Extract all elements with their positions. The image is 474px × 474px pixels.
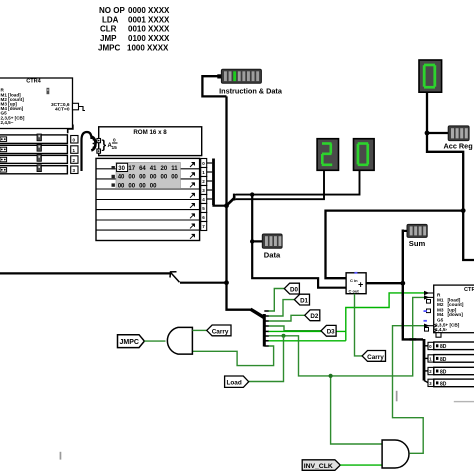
node nibble splitter xyxy=(227,194,237,205)
svg-text:[down]: [down] xyxy=(448,312,464,317)
svg-text:CLR: CLR xyxy=(100,25,117,34)
wire load net junction to CTR M1 pin xyxy=(331,297,424,376)
svg-text:2,4,5−: 2,4,5− xyxy=(1,120,14,125)
wire bit5 to reset net xyxy=(269,330,346,332)
wire to adder input B xyxy=(252,241,346,287)
ROM data rows box (8 output rows) xyxy=(96,158,200,240)
svg-text:JMP: JMP xyxy=(100,34,117,43)
wire D3 fan xyxy=(269,326,322,331)
wire accumulator net: display, Acc Reg probe, adder input A xyxy=(326,92,474,278)
svg-text:ROM 16 x 8: ROM 16 x 8 xyxy=(133,129,167,136)
node junction acc display xyxy=(425,131,430,136)
display seven-segment hex "0" (accumulator, top right) xyxy=(419,60,442,92)
svg-text:8D: 8D xyxy=(440,381,447,387)
tunnel INV_CLK xyxy=(302,460,340,471)
svg-text:+: + xyxy=(358,280,363,290)
svg-text:20: 20 xyxy=(161,166,168,172)
wire crossing overdraws (black bus over green) xyxy=(403,290,416,340)
tunnel Carry (from adder C out) xyxy=(362,351,385,362)
misc gray cursor dash 1 xyxy=(396,391,398,402)
svg-text:Sum: Sum xyxy=(409,239,426,248)
tunnel D2 xyxy=(305,310,320,321)
node ROM output tabs 0-7 xyxy=(201,159,207,231)
svg-text:15: 15 xyxy=(112,145,118,151)
svg-text:M4: M4 xyxy=(437,312,444,317)
wire ROM tabs merge bar xyxy=(207,159,227,206)
probe Acc Reg (4-bit) xyxy=(444,126,473,151)
svg-text:00: 00 xyxy=(161,175,168,181)
node junction data tap xyxy=(250,192,254,196)
svg-text:40: 40 xyxy=(118,175,125,181)
tunnel Carry (input to gate) xyxy=(207,325,231,336)
svg-text:8D: 8D xyxy=(440,357,447,363)
wire reset net to CTR R pin xyxy=(346,293,424,341)
svg-text:[count]: [count] xyxy=(448,302,464,307)
svg-text:NO OP: NO OP xyxy=(99,6,125,15)
wire clock feed horizontal xyxy=(180,282,227,284)
svg-text:}: } xyxy=(102,138,107,152)
svg-text:0001 XXXX: 0001 XXXX xyxy=(128,16,170,25)
svg-text:00: 00 xyxy=(118,183,125,189)
node junction clock wire / instruction bus xyxy=(224,280,229,285)
svg-text:00: 00 xyxy=(139,175,146,181)
node row output stubs 0-3 (left rows) xyxy=(71,136,78,174)
svg-text:0010 XXXX: 0010 XXXX xyxy=(128,25,170,34)
wire data tap down xyxy=(252,195,262,242)
wire row-stub merge bus (left) xyxy=(82,132,92,171)
svg-text:D3: D3 xyxy=(327,329,335,336)
gate AND G2 (clock, facing right) xyxy=(382,440,409,468)
wire JMPC to gate output xyxy=(144,340,165,342)
register rows (left, 4 D flip-flop rows, clipped at left edge) xyxy=(0,134,67,174)
probe Data (4-bit) xyxy=(262,234,282,260)
ROM U2 header box ROM 16 x 8 xyxy=(97,127,202,156)
svg-text:00: 00 xyxy=(128,183,135,189)
wire bit7 to reset net xyxy=(269,340,346,342)
svg-text:D1: D1 xyxy=(300,297,308,304)
counter CTR4 (right, clipped at image edge) xyxy=(425,285,474,337)
wire sum bus vertical to right register splitter xyxy=(403,230,423,340)
svg-text:D0: D0 xyxy=(290,286,298,293)
node junction sum bus xyxy=(400,281,405,286)
svg-text:Instruction & Data: Instruction & Data xyxy=(219,87,283,96)
wire bit8 to JMPC gate input xyxy=(192,346,273,366)
wire D0 fan xyxy=(269,289,285,312)
tunnel D0 xyxy=(284,283,299,294)
adder U3 with C in / C out xyxy=(346,272,366,294)
node junction load net xyxy=(329,374,333,378)
counter CTR4 (left, clipped at image edge) xyxy=(0,78,73,129)
display seven-segment hex "0" (middle) xyxy=(354,139,375,171)
svg-text:4CT=0: 4CT=0 xyxy=(55,107,70,113)
svg-text:00: 00 xyxy=(128,175,135,181)
pin CT=15 stub (CTR4 right side) xyxy=(73,103,86,110)
misc gray line right xyxy=(454,401,474,402)
svg-text:00: 00 xyxy=(150,183,157,189)
wire D2 fan xyxy=(269,315,305,321)
wire INV_CLK to clock gate input xyxy=(340,464,382,466)
svg-text:30: 30 xyxy=(118,166,125,172)
svg-text:JMPC: JMPC xyxy=(98,44,120,53)
svg-text:Data: Data xyxy=(264,251,281,260)
tunnel D3 xyxy=(321,325,336,336)
svg-text:LDA: LDA xyxy=(102,16,119,25)
svg-text:JMPC: JMPC xyxy=(120,339,139,346)
wire lower nibble bus to display 2 xyxy=(236,171,324,200)
wire clock gate output to CTR CB pin xyxy=(393,326,425,454)
svg-text:D2: D2 xyxy=(310,313,318,320)
wire instruction bus vertical xyxy=(227,96,252,309)
svg-text:00: 00 xyxy=(150,175,157,181)
pin stubs and arrowheads on right CTR4 xyxy=(424,291,434,328)
wire long clock line from left edge xyxy=(0,272,171,274)
tunnel Load xyxy=(225,376,249,387)
wire D1 fan xyxy=(269,300,295,316)
wire adder carry out to Carry tunnel xyxy=(355,294,363,356)
probe Instruction & Data (8-bit) xyxy=(217,69,283,95)
svg-text:0100 XXXX: 0100 XXXX xyxy=(128,34,170,43)
tunnel D1 xyxy=(294,294,309,305)
node bus splitter (right register) xyxy=(424,339,429,383)
wire probe tap to Instruction & Data xyxy=(202,76,226,96)
wire branch down to Load tunnel xyxy=(249,336,284,382)
gate AND G1 (facing left) xyxy=(167,327,192,354)
wire adder sum output to bus xyxy=(366,282,403,284)
tunnel JMPC xyxy=(118,335,145,348)
display seven-segment hex "2" xyxy=(317,139,338,171)
label A 0..15 address brace xyxy=(102,138,118,152)
node junction ROM bus / instruction bus xyxy=(224,203,229,208)
svg-text:2,4,5›: 2,4,5› xyxy=(435,327,447,332)
node splitter connector bars to ROM xyxy=(91,137,95,151)
node bus splitter (instruction word fan-out) xyxy=(251,309,270,346)
wire sum probe stub xyxy=(403,230,407,232)
svg-text:C in: C in xyxy=(350,278,358,283)
svg-text:Carry: Carry xyxy=(367,354,384,361)
wire bit6 to Load tunnel xyxy=(269,336,331,376)
svg-text:11: 11 xyxy=(171,166,178,172)
svg-text:17: 17 xyxy=(128,166,135,172)
ROM contents table xyxy=(112,163,181,190)
svg-text:Load: Load xyxy=(227,379,242,386)
svg-text:8D: 8D xyxy=(440,344,447,350)
misc gray cursor dash 2 xyxy=(60,452,62,460)
svg-text:Acc Reg: Acc Reg xyxy=(444,142,473,151)
node junction load branch xyxy=(282,334,286,338)
svg-text:Carry: Carry xyxy=(212,328,229,335)
svg-text:41: 41 xyxy=(150,166,157,172)
svg-text:M2: M2 xyxy=(437,302,444,307)
svg-text:1000 XXXX: 1000 XXXX xyxy=(127,44,169,53)
wire Carry tunnel to gate input xyxy=(192,329,206,331)
svg-text:0000 XXXX: 0000 XXXX xyxy=(128,6,170,15)
svg-text:64: 64 xyxy=(139,166,146,172)
svg-text:00: 00 xyxy=(139,183,146,189)
node junction acc bus corner xyxy=(461,208,466,213)
node clock arrow symbol xyxy=(170,272,180,283)
node junction data probe / adder B branch xyxy=(250,239,254,243)
svg-text:00: 00 xyxy=(171,175,178,181)
node register stubs 0-3 (right) xyxy=(428,342,434,386)
svg-text:CTR4: CTR4 xyxy=(26,78,41,84)
wire upper nibble bus to display 0 xyxy=(236,171,360,195)
wire D3 net down to clock gate xyxy=(331,376,383,444)
register rows (right, 4 D flip-flop rows, clipped at right edge) xyxy=(434,342,474,387)
wire CTR4 bottom notch to row bus xyxy=(68,125,73,134)
svg-text:8D: 8D xyxy=(440,369,447,375)
probe Sum (4-bit) xyxy=(407,224,427,247)
svg-text:CTR4: CTR4 xyxy=(464,287,474,293)
svg-text:INV_CLK: INV_CLK xyxy=(304,463,333,470)
opcode table xyxy=(98,6,170,53)
